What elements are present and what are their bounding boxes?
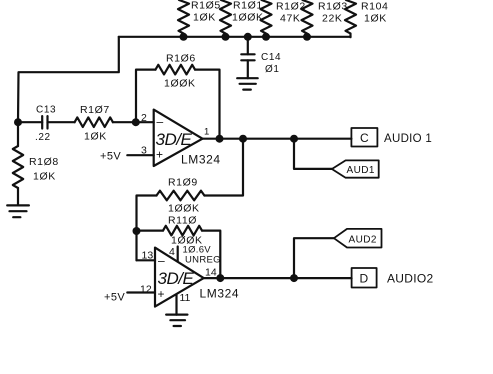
svg-text:1: 1 — [204, 127, 209, 138]
svg-text:22K: 22K — [322, 13, 342, 25]
svg-text:3D/E: 3D/E — [158, 269, 195, 288]
svg-text:12: 12 — [140, 284, 152, 296]
node junction R105-bus — [180, 33, 188, 41]
capacitor C13 — [18, 105, 75, 144]
node junction R101-bus — [222, 33, 230, 41]
svg-text:11: 11 — [180, 292, 191, 304]
svg-text:4: 4 — [169, 246, 175, 258]
resistor R110 — [137, 215, 221, 279]
node junction R110-output — [216, 274, 224, 282]
resistor R101 — [220, 0, 264, 37]
svg-text:R1Ø6: R1Ø6 — [166, 53, 196, 65]
wire top bus — [119, 36, 351, 38]
svg-text:R1Ø3: R1Ø3 — [318, 1, 348, 13]
wire U2 output — [204, 277, 352, 279]
resistor R108 — [13, 122, 59, 205]
node junction AUD1-output — [290, 135, 298, 143]
svg-text:14: 14 — [205, 267, 217, 279]
svg-text:R104: R104 — [361, 1, 389, 13]
svg-text:LM324: LM324 — [200, 287, 240, 301]
svg-text:UNREG: UNREG — [185, 254, 221, 265]
svg-text:R1Ø7: R1Ø7 — [80, 104, 110, 116]
wire to AUD1 tag — [294, 139, 332, 169]
svg-text:R1Ø5: R1Ø5 — [191, 0, 221, 12]
resistor R109 — [137, 139, 244, 261]
svg-text:C14: C14 — [261, 52, 281, 63]
svg-text:AUD1: AUD1 — [347, 165, 375, 176]
svg-text:+5V: +5V — [104, 292, 125, 304]
resistor R104 — [345, 0, 389, 37]
node feedback/input junction — [132, 118, 140, 126]
svg-text:+: + — [156, 148, 163, 162]
svg-text:AUDIO2: AUDIO2 — [387, 272, 434, 286]
svg-text:C: C — [360, 131, 369, 145]
svg-text:–: – — [158, 254, 165, 268]
wire +5V to pin 12 (U2) — [127, 291, 155, 293]
svg-text:1ØK: 1ØK — [193, 12, 216, 24]
terminal AUD2 tag — [334, 229, 382, 248]
ground (U2 pin 11) — [166, 315, 187, 326]
svg-text:R1Ø2: R1Ø2 — [276, 1, 306, 13]
wire bus to input node (left branch) — [18, 37, 119, 122]
svg-text:1ØK: 1ØK — [84, 131, 107, 143]
svg-text:1ØØK: 1ØØK — [168, 203, 200, 215]
resistor R103 — [302, 0, 348, 37]
svg-text:R11Ø: R11Ø — [168, 215, 197, 227]
node junction R110-left — [133, 227, 141, 235]
wire +5V to pin 3 (U1) — [127, 154, 153, 156]
terminal C box — [351, 128, 432, 147]
svg-text:2: 2 — [141, 112, 147, 124]
node junction AUD2-output — [290, 274, 298, 282]
node junction R103-bus — [303, 33, 311, 41]
op-amp U1 (3D/E LM324) — [141, 110, 221, 167]
node junction R106-output — [216, 135, 224, 143]
svg-text:C13: C13 — [36, 105, 56, 116]
svg-text:R1Ø1: R1Ø1 — [233, 0, 263, 12]
svg-text:AUDIO 1: AUDIO 1 — [384, 133, 432, 145]
wire to AUD2 tag — [294, 238, 334, 278]
resistor R106 — [136, 53, 220, 139]
node junction R102-bus — [262, 33, 270, 41]
terminal D box — [352, 268, 434, 288]
ground (C14) — [237, 78, 258, 89]
svg-text:+: + — [158, 287, 165, 301]
terminal AUD1 tag — [332, 160, 379, 177]
svg-text:1ØK: 1ØK — [364, 13, 387, 25]
svg-text:13: 13 — [142, 250, 154, 262]
svg-text:R1Ø8: R1Ø8 — [29, 156, 59, 168]
svg-text:Ø1: Ø1 — [265, 64, 280, 75]
svg-text:D: D — [360, 272, 369, 286]
resistor R107 — [75, 104, 154, 143]
node junction R109-output — [239, 135, 247, 143]
capacitor C14 — [241, 33, 281, 78]
resistor R102 — [261, 0, 306, 37]
svg-text:+5V: +5V — [100, 151, 121, 163]
pin 11 ground stub (U2) — [175, 294, 177, 314]
svg-text:1ØØK: 1ØØK — [232, 12, 264, 24]
svg-text:.22: .22 — [35, 132, 51, 143]
resistor R105 — [178, 0, 221, 37]
svg-text:47K: 47K — [280, 13, 300, 25]
wire U1 output — [203, 138, 352, 140]
svg-text:R1Ø9: R1Ø9 — [168, 177, 198, 189]
node input A — [14, 118, 22, 126]
svg-text:LM324: LM324 — [181, 153, 221, 167]
svg-text:1ØK: 1ØK — [33, 171, 56, 183]
svg-text:3D/E: 3D/E — [156, 130, 193, 149]
pin 4 stub and label (U2) — [169, 245, 221, 266]
ground (R108) — [7, 205, 29, 217]
svg-text:AUD2: AUD2 — [349, 235, 377, 246]
svg-text:1ØØK: 1ØØK — [164, 78, 196, 90]
wire pin 13 (U2) — [137, 259, 156, 261]
op-amp U2 (3D/E LM324) — [140, 248, 239, 307]
svg-text:–: – — [157, 115, 164, 129]
